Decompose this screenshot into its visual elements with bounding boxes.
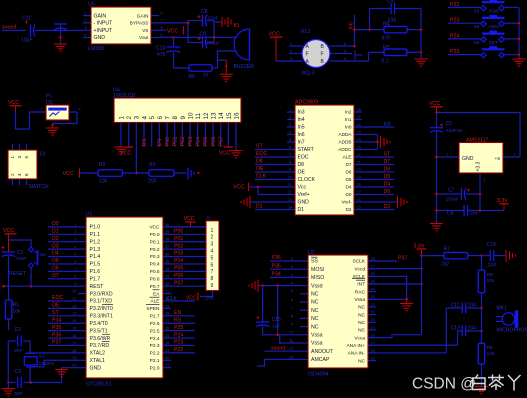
wire button ground rail — [518, 8, 520, 59]
svg-text:2: 2 — [211, 235, 214, 241]
svg-text:VCC: VCC — [8, 100, 19, 106]
svg-text:10uF: 10uF — [208, 15, 219, 21]
svg-text:CLK: CLK — [256, 174, 267, 180]
svg-text:2: 2 — [484, 178, 486, 182]
svg-text:SPEN: SPEN — [146, 306, 160, 312]
wire reset button bottom to REST — [30, 268, 32, 286]
ADC pin 11 Vcc — [287, 186, 295, 188]
svg-text:8: 8 — [291, 314, 293, 318]
svg-text:NC: NC — [358, 358, 365, 364]
U1 pin 34 P0.5 — [163, 270, 171, 272]
U1 pin 11 P3.1/TXD — [78, 300, 86, 302]
svg-text:P2.1: P2.1 — [150, 358, 160, 364]
U2 pin 20 NC — [368, 321, 376, 323]
svg-text:P1.1: P1.1 — [90, 232, 101, 238]
svg-text:11: 11 — [289, 339, 293, 343]
svg-text:21: 21 — [357, 161, 361, 165]
svg-text:OE: OE — [256, 166, 264, 172]
wire VCC to jack — [16, 112, 39, 129]
svg-text:1: 1 — [290, 42, 292, 46]
U2 pin 15 NC — [368, 360, 376, 362]
resistor R6 — [189, 65, 212, 72]
svg-text:1: 1 — [291, 257, 293, 261]
capacitor C12b to ground at input — [54, 23, 67, 25]
U1 pin 23 P2.2 — [163, 352, 171, 354]
svg-text:R8: R8 — [487, 345, 494, 351]
wire GND pin — [62, 367, 79, 369]
svg-text:C4: C4 — [387, 0, 393, 4]
svg-text:P37: P37 — [398, 255, 407, 261]
svg-text:S2: S2 — [40, 252, 46, 258]
svg-text:D5: D5 — [346, 177, 352, 182]
svg-text:CSDN @: CSDN @ — [412, 376, 476, 393]
svg-text:P2.5: P2.5 — [150, 328, 160, 334]
svg-text:18: 18 — [357, 183, 361, 187]
svg-text:P0.4: P0.4 — [150, 262, 160, 268]
svg-text:29: 29 — [165, 304, 169, 308]
ADC pin 2 In4 — [287, 119, 295, 121]
wire/node EOC to U1 — [48, 300, 78, 302]
svg-text:D6: D6 — [384, 166, 391, 172]
svg-text:P3.1/TXD: P3.1/TXD — [90, 299, 113, 305]
svg-text:P01: P01 — [174, 236, 183, 242]
svg-text:7: 7 — [211, 269, 214, 275]
svg-text:24: 24 — [357, 138, 361, 142]
svg-text:9: 9 — [180, 116, 187, 120]
svg-text:D8: D8 — [256, 159, 263, 165]
svg-text:24: 24 — [165, 341, 169, 345]
svg-text:VCC: VCC — [184, 216, 195, 222]
wire Vssa rail — [277, 286, 279, 335]
U2 pin 10 Vssa — [300, 334, 308, 336]
wire/node P35 to U2 — [270, 268, 300, 270]
svg-text:P23: P23 — [174, 340, 183, 346]
U5 pin 2 - INPUT — [83, 22, 91, 24]
svg-text:XTAL2: XTAL2 — [90, 351, 106, 357]
svg-text:4: 4 — [74, 245, 76, 249]
svg-text:6: 6 — [24, 173, 29, 176]
svg-text:D6: D6 — [52, 266, 59, 272]
svg-text:GND: GND — [94, 35, 106, 41]
svg-text:SWITCH: SWITCH — [29, 184, 49, 190]
svg-text:Vssa: Vssa — [311, 341, 323, 347]
svg-text:ST: ST — [256, 144, 263, 150]
underline XCLK — [352, 278, 365, 280]
ADC pin 5 In7 — [287, 141, 295, 143]
wire BYPASS to C8/C9 — [159, 22, 188, 24]
wire button P22 to ground rail — [505, 7, 520, 9]
svg-text:9: 9 — [291, 323, 293, 327]
svg-text:ST: ST — [384, 151, 391, 157]
svg-text:5: 5 — [149, 116, 156, 120]
svg-text:5: 5 — [161, 33, 163, 37]
svg-text:D5: D5 — [52, 258, 59, 264]
wire sound input — [2, 30, 26, 32]
power VCC LCD pin15 — [224, 146, 234, 148]
ADC pin 7 EOC — [287, 156, 295, 158]
svg-text:ADDB: ADDB — [338, 140, 351, 145]
svg-text:P06: P06 — [174, 273, 183, 279]
svg-text:9: 9 — [74, 282, 76, 286]
svg-text:ADDA: ADDA — [338, 132, 352, 137]
push button S5 SET — [481, 37, 486, 42]
svg-text:Vref+: Vref+ — [298, 192, 310, 198]
svg-text:3: 3 — [211, 242, 214, 248]
svg-text:20: 20 — [371, 318, 375, 322]
wire/node D6 to U1 P1.6 — [48, 270, 78, 272]
svg-text:Vccd: Vccd — [354, 266, 365, 272]
svg-text:10: 10 — [203, 73, 209, 79]
svg-text:Y1: Y1 — [39, 353, 45, 359]
svg-text:1: 1 — [118, 116, 125, 120]
wire/node ST to U1 — [48, 315, 78, 317]
wire C10 top to Vout wire — [173, 37, 175, 47]
svg-text:NC: NC — [358, 320, 365, 326]
ADC pin 16 Vref- — [354, 201, 362, 203]
U1 pin 7 P1.6 — [78, 270, 86, 272]
S1 pin 6 — [26, 179, 28, 186]
ADC pin 4 In6 — [287, 134, 295, 136]
svg-text:EOC: EOC — [256, 151, 267, 157]
svg-text:10K: 10K — [206, 295, 215, 301]
svg-text:10uF: 10uF — [21, 38, 33, 44]
svg-text:D6: D6 — [346, 170, 352, 175]
svg-text:Vssa: Vssa — [311, 333, 323, 339]
U2 pin 25 INT — [368, 283, 376, 285]
svg-text:3: 3 — [134, 116, 141, 120]
U5 pin 5 Vout — [151, 37, 159, 39]
U1 pin 14 P3.4/T0 — [78, 322, 86, 324]
svg-text:In2: In2 — [345, 110, 352, 115]
svg-text:39: 39 — [165, 230, 169, 234]
U1 pin 16 P3.6/WR — [78, 337, 86, 339]
svg-text:10k: 10k — [99, 179, 108, 185]
wire second Vssa — [280, 335, 300, 343]
U2 pin 13 AMCAP — [300, 358, 308, 360]
svg-text:VS: VS — [142, 28, 148, 34]
svg-text:sound: sound — [271, 345, 285, 351]
svg-text:12: 12 — [288, 191, 292, 195]
wire/node P37 to U1 — [48, 344, 78, 346]
wire/node P24 from U1 — [171, 337, 195, 339]
wire Vout to buzzer — [159, 36, 236, 38]
ADC pin 18 D4 — [354, 186, 362, 188]
wire GND pin to rail — [437, 156, 452, 158]
svg-text:EOC: EOC — [298, 155, 309, 161]
push button — [481, 53, 486, 58]
svg-text:S5: S5 — [474, 40, 480, 46]
svg-text:P1: P1 — [46, 94, 52, 100]
svg-text:ST: ST — [52, 310, 59, 316]
wire/node P22 from U1 — [171, 352, 195, 354]
svg-text:ADDC: ADDC — [338, 147, 352, 152]
svg-text:2: 2 — [74, 230, 76, 234]
U2 pin 23 Vssa — [368, 298, 376, 300]
wire VCC rail to regulator input — [437, 112, 521, 114]
ground for buttons — [513, 58, 526, 60]
svg-text:P1.3: P1.3 — [90, 247, 101, 253]
U2 pin 3 MISO — [300, 276, 308, 278]
U1 pin 2 P1.1 — [78, 233, 86, 235]
svg-text:EN: EN — [157, 139, 163, 147]
svg-text:+INPUT: +INPUT — [94, 28, 113, 34]
svg-text:16: 16 — [357, 198, 361, 202]
svg-text:SUB: SUB — [489, 9, 499, 15]
ADC pin 12 Vref+ — [287, 194, 295, 196]
svg-text:REST: REST — [90, 284, 105, 290]
svg-text:NC: NC — [311, 308, 319, 314]
svg-text:NC: NC — [311, 300, 319, 306]
wire R2 to R3 — [123, 172, 150, 174]
svg-text:15: 15 — [357, 206, 361, 210]
U1 pin 8 P1.7 — [78, 278, 86, 280]
svg-text:100uF: 100uF — [206, 41, 220, 47]
U1 pin 29 SPEN — [163, 307, 171, 309]
power VCC LCD pin2 — [124, 146, 133, 148]
wire P25 to button — [448, 54, 481, 56]
U1 pin 9 REST — [78, 285, 86, 287]
svg-text:16: 16 — [233, 112, 240, 120]
svg-text:C10: C10 — [156, 46, 166, 52]
svg-text:MOSI: MOSI — [311, 267, 324, 273]
ground at Vref- — [362, 201, 397, 203]
wire C8/C9 junction to Vout node — [213, 21, 215, 43]
overline EA — [153, 289, 160, 291]
svg-text:P1.0: P1.0 — [90, 225, 101, 231]
U1 pin 40 VCC — [163, 226, 171, 228]
svg-text:In5: In5 — [298, 125, 305, 131]
svg-text:1: 1 — [74, 223, 76, 227]
svg-text:1: 1 — [85, 11, 87, 15]
svg-text:C11: C11 — [22, 16, 31, 22]
svg-text:INT: INT — [357, 282, 365, 288]
svg-text:EN: EN — [174, 310, 181, 316]
svg-text:P1.4: P1.4 — [90, 254, 101, 260]
svg-text:19: 19 — [357, 176, 361, 180]
svg-text:18: 18 — [371, 334, 375, 338]
svg-text:In0: In0 — [349, 22, 355, 29]
svg-text:35: 35 — [165, 260, 169, 264]
svg-text:21: 21 — [165, 364, 169, 368]
svg-text:P36: P36 — [272, 255, 281, 261]
wire/node RS from U1 — [171, 322, 195, 324]
svg-text:P00: P00 — [165, 137, 171, 147]
svg-text:3: 3 — [85, 26, 87, 30]
svg-text:6: 6 — [157, 116, 164, 120]
wire/node OE to ADC — [255, 171, 287, 173]
svg-text:In1: In1 — [345, 117, 352, 122]
svg-text:P01: P01 — [172, 137, 178, 147]
svg-text:In6: In6 — [298, 132, 305, 138]
svg-text:6: 6 — [291, 298, 293, 302]
svg-text:4: 4 — [291, 282, 293, 286]
wire/node sound from ANDOUT — [265, 350, 301, 352]
battery B1 — [221, 17, 223, 27]
S1 pin 2 — [12, 179, 14, 186]
svg-text:F: F — [321, 52, 324, 58]
svg-text:RL3: RL3 — [301, 29, 311, 35]
wire reset net to REST pin — [3, 285, 78, 287]
svg-text:P05: P05 — [203, 137, 209, 147]
wire/node D4 right of ADC — [362, 186, 394, 188]
svg-text:OE: OE — [52, 303, 60, 309]
svg-text:P2.4: P2.4 — [150, 336, 160, 342]
ADC pin 6 START — [287, 149, 295, 151]
wire/node P37 to SCLK — [368, 260, 397, 262]
svg-text:GND: GND — [298, 200, 310, 206]
wire R8 to ground — [481, 364, 483, 386]
ground regulator rail — [430, 223, 443, 225]
wire regulator ground rail — [436, 113, 438, 128]
svg-text:19: 19 — [72, 356, 76, 360]
MQ-3 pin 3/4 — [289, 60, 303, 62]
svg-text:P3.6/WR: P3.6/WR — [90, 336, 111, 342]
overline WR — [102, 333, 110, 335]
svg-text:10k: 10k — [13, 309, 21, 315]
svg-text:D7: D7 — [384, 159, 391, 165]
U5 pin 1 GAIN — [83, 15, 91, 17]
svg-text:23: 23 — [371, 295, 375, 299]
svg-text:START: START — [298, 147, 314, 153]
U2 pin 5 NC — [300, 293, 308, 295]
ground MCU — [55, 369, 68, 371]
U2 pin 18 Vcca — [368, 337, 376, 339]
U2 pin 8 NC — [300, 317, 308, 319]
svg-text:MK1: MK1 — [497, 305, 508, 311]
ground xtal left — [2, 388, 15, 390]
svg-text:P1.2: P1.2 — [90, 239, 101, 245]
svg-text:38: 38 — [165, 238, 169, 242]
svg-text:MISO: MISO — [311, 275, 324, 281]
wire/node EN from U1 — [171, 315, 195, 317]
U2 pin 22 NC — [368, 306, 376, 308]
svg-text:17: 17 — [72, 341, 76, 345]
svg-text:C7: C7 — [448, 187, 455, 193]
AMS1117 pin2 +3.3 out — [479, 173, 481, 194]
svg-text:ANA IN-: ANA IN- — [348, 351, 366, 357]
svg-text:EA: EA — [153, 291, 160, 297]
U1 pin 24 P2.3 — [163, 344, 171, 346]
ground for MQ-3 divider — [415, 58, 428, 60]
svg-text:P37: P37 — [52, 340, 61, 346]
svg-text:P04: P04 — [196, 137, 202, 147]
wire XCLK down — [368, 276, 407, 299]
U1 pin 39 P0.0 — [163, 233, 171, 235]
svg-text:22: 22 — [371, 303, 375, 307]
svg-text:GND: GND — [462, 156, 474, 162]
wire XTAL1 — [44, 359, 78, 361]
U1 pin 20 GND — [78, 367, 86, 369]
ADC pin 17 D0 — [354, 194, 362, 196]
svg-text:VCC: VCC — [429, 101, 440, 107]
wire C13 left down to ANA IN+ — [457, 331, 459, 345]
svg-text:In7: In7 — [298, 140, 305, 146]
svg-text:25: 25 — [165, 334, 169, 338]
wire ANA IN+ to C13 — [368, 344, 458, 346]
ADC pin 13 GND — [287, 201, 295, 203]
svg-text:VCC: VCC — [63, 171, 74, 177]
U1 pin 36 P0.3 — [163, 256, 171, 258]
wire Vccd to 3.3V rail — [368, 268, 422, 270]
svg-text:D4: D4 — [384, 181, 391, 187]
svg-text:28: 28 — [165, 312, 169, 316]
U1 pin 32 P0.7 — [163, 285, 171, 287]
overline SS — [311, 256, 318, 258]
wire buzzer to ground — [218, 51, 236, 68]
wire xtal ground rail left — [7, 341, 9, 383]
svg-text:D8: D8 — [298, 162, 305, 168]
svg-text:P0.2: P0.2 — [150, 247, 160, 253]
svg-text:3: 3 — [290, 57, 292, 61]
svg-text:P3.7/RD: P3.7/RD — [90, 343, 110, 349]
svg-text:NC: NC — [358, 312, 365, 318]
svg-text:AMCAP: AMCAP — [311, 357, 330, 363]
wire/node P36 to U2 — [270, 260, 300, 262]
svg-text:7: 7 — [164, 116, 171, 120]
svg-text:22: 22 — [357, 153, 361, 157]
svg-text:ADD: ADD — [489, 24, 500, 30]
S1 pin 4 — [19, 179, 21, 186]
wire mic bias node — [481, 308, 483, 343]
U2 pin 9 NC — [300, 326, 308, 328]
wire/node D0 to U1 P1.0 — [48, 226, 78, 228]
svg-text:D2: D2 — [384, 204, 391, 210]
ground under jack — [46, 127, 59, 129]
svg-text:D1: D1 — [52, 229, 59, 235]
wire to battery B1 — [214, 21, 222, 23]
wire/node D7 right of ADC — [362, 164, 394, 166]
svg-text:17: 17 — [371, 341, 375, 345]
wire/node D3 to U1 P1.3 — [48, 248, 78, 250]
svg-text:D2: D2 — [346, 207, 352, 212]
capacitor C4 104 — [369, 9, 371, 30]
U1 pin 33 P0.6 — [163, 278, 171, 280]
AMS1117 pin1 GND — [451, 156, 459, 158]
svg-text:10uF: 10uF — [16, 256, 27, 262]
ADC pin 27 In1 — [354, 119, 362, 121]
U1 pin 37 P0.2 — [163, 248, 171, 250]
svg-text:100uF: 100uF — [446, 197, 460, 203]
svg-text:37: 37 — [165, 245, 169, 249]
svg-text:P2.3: P2.3 — [150, 343, 160, 349]
svg-text:R7: R7 — [444, 247, 451, 253]
U1 pin 10 P3.0/RXD — [78, 293, 86, 295]
svg-text:33: 33 — [165, 275, 169, 279]
svg-text:8: 8 — [161, 11, 163, 15]
wire/node P34 to U1 — [48, 322, 78, 324]
svg-text:104: 104 — [468, 326, 477, 332]
ADC pin 22 ALE — [354, 156, 362, 158]
svg-text:U1: U1 — [86, 211, 93, 217]
svg-text:12: 12 — [203, 112, 210, 120]
svg-text:Vcc: Vcc — [298, 185, 307, 191]
svg-text:32: 32 — [165, 282, 169, 286]
svg-text:12: 12 — [289, 347, 293, 351]
power VCC at U5 VS pin — [159, 29, 166, 31]
U1 pin 35 P0.4 — [163, 263, 171, 265]
svg-text:6: 6 — [289, 146, 291, 150]
svg-text:3: 3 — [289, 123, 291, 127]
svg-text:13: 13 — [72, 312, 76, 316]
U2 pin 28 SCLK — [368, 260, 376, 262]
wire/node OE to U1 — [48, 307, 78, 309]
svg-text:28: 28 — [371, 257, 375, 261]
svg-text:11: 11 — [288, 183, 292, 187]
gas sensor RL3 MQ-3 — [302, 40, 330, 68]
svg-text:26: 26 — [165, 327, 169, 331]
wire C2 to crystal top — [29, 341, 31, 353]
svg-text:P2.2: P2.2 — [150, 351, 160, 357]
